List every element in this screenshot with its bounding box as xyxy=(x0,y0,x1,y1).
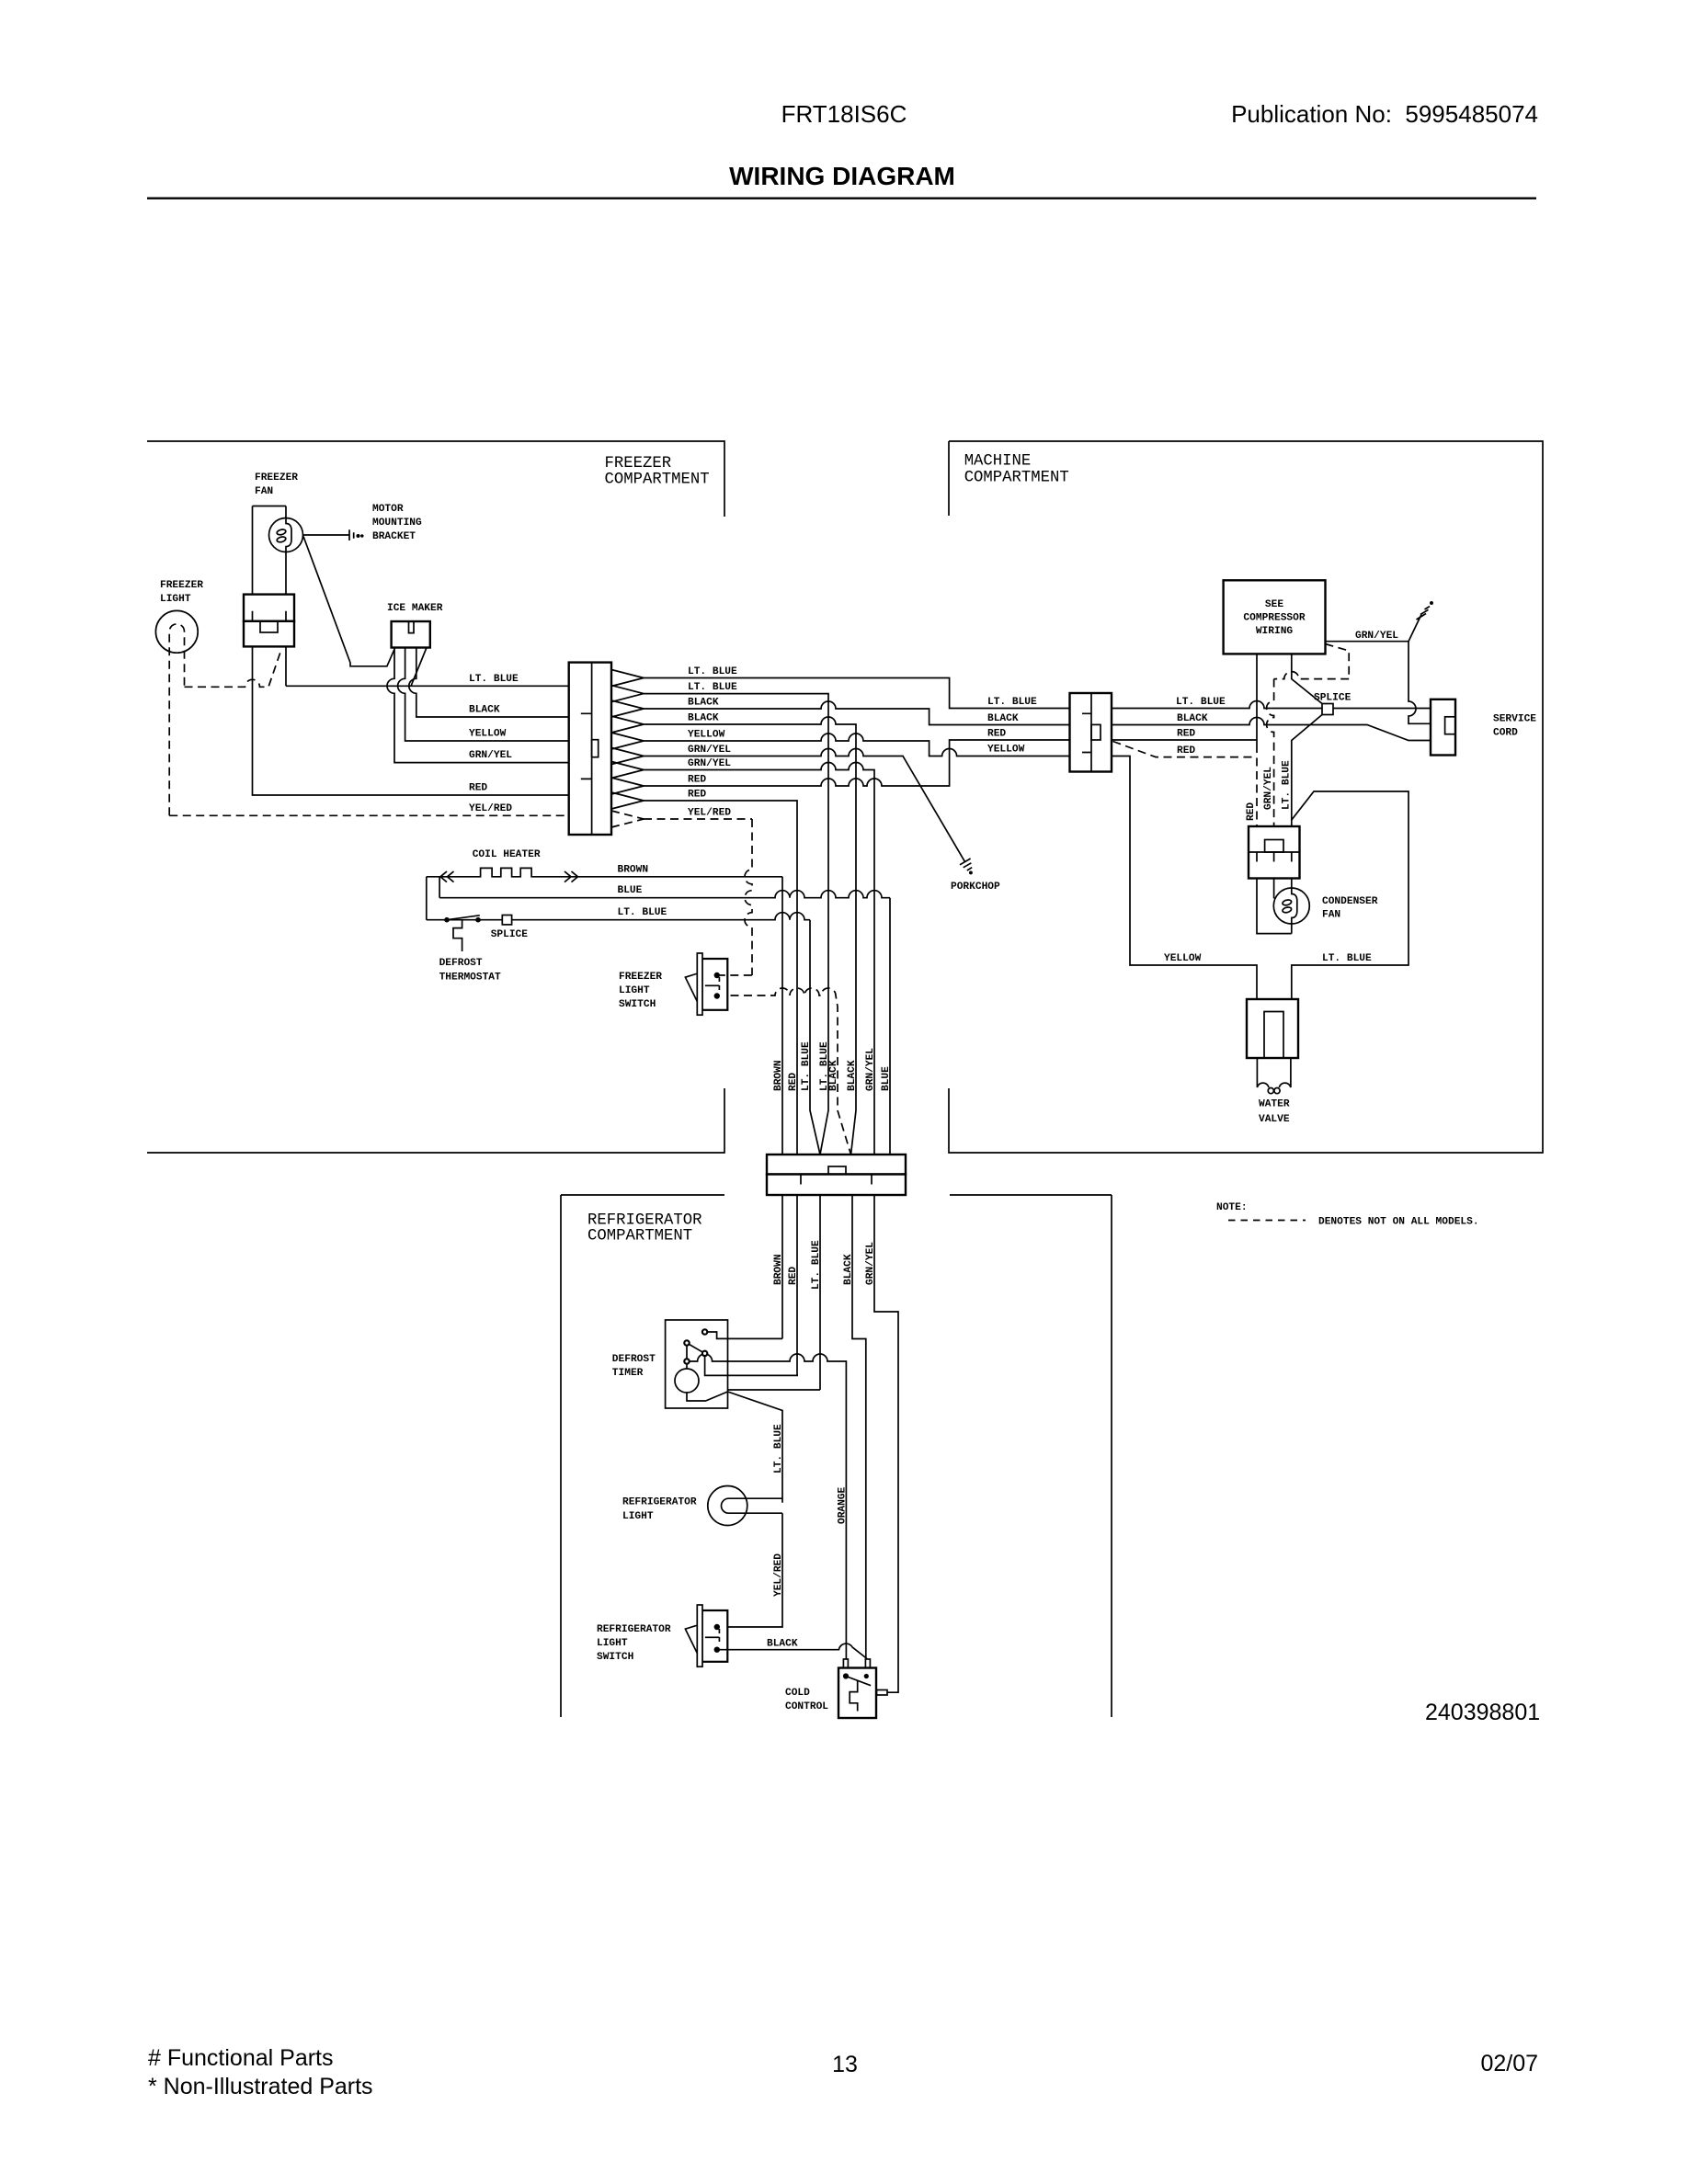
svg-text:NOTE:: NOTE: xyxy=(1216,1202,1248,1213)
svg-text:LT. BLUE: LT. BLUE xyxy=(987,697,1037,708)
svg-text:LIGHT: LIGHT xyxy=(619,985,650,996)
svg-text:TIMER: TIMER xyxy=(612,1368,644,1379)
svg-text:ICE MAKER: ICE MAKER xyxy=(387,603,443,614)
svg-text:DEFROST: DEFROST xyxy=(439,958,483,969)
svg-text:CONDENSER: CONDENSER xyxy=(1322,896,1378,907)
svg-text:RED: RED xyxy=(469,783,487,794)
svg-text:BLACK: BLACK xyxy=(767,1639,798,1650)
svg-text:LT. BLUE: LT. BLUE xyxy=(688,666,737,677)
svg-text:RED: RED xyxy=(788,1073,799,1091)
svg-text:LIGHT: LIGHT xyxy=(622,1511,654,1522)
svg-text:GRN/YEL: GRN/YEL xyxy=(688,745,731,756)
svg-text:FREEZER: FREEZER xyxy=(255,472,298,483)
svg-text:REFRIGERATOR: REFRIGERATOR xyxy=(597,1624,671,1635)
svg-text:SWITCH: SWITCH xyxy=(597,1652,633,1663)
svg-text:BROWN: BROWN xyxy=(618,864,649,875)
svg-text:GRN/YEL: GRN/YEL xyxy=(469,750,512,761)
svg-text:13: 13 xyxy=(832,2052,858,2077)
svg-text:LT. BLUE: LT. BLUE xyxy=(618,907,667,918)
svg-text:BLACK: BLACK xyxy=(847,1060,858,1091)
svg-text:YELLOW: YELLOW xyxy=(987,745,1025,756)
svg-text:MACHINE: MACHINE xyxy=(964,453,1032,471)
svg-text:COMPARTMENT: COMPARTMENT xyxy=(964,469,1069,486)
svg-text:WIRING DIAGRAM: WIRING DIAGRAM xyxy=(729,162,955,190)
svg-text:COIL HEATER: COIL HEATER xyxy=(473,849,541,860)
svg-text:WATER: WATER xyxy=(1259,1099,1290,1110)
svg-text:LIGHT: LIGHT xyxy=(597,1638,628,1649)
svg-text:WIRING: WIRING xyxy=(1256,626,1294,637)
svg-text:LT. BLUE: LT. BLUE xyxy=(688,682,737,693)
svg-text:GRN/YEL: GRN/YEL xyxy=(1263,767,1274,810)
svg-text:RED: RED xyxy=(688,790,706,801)
svg-text:* Non-Illustrated Parts: * Non-Illustrated Parts xyxy=(148,2074,373,2099)
svg-text:FREEZER: FREEZER xyxy=(619,972,662,983)
svg-text:GRN/YEL: GRN/YEL xyxy=(865,1048,876,1091)
svg-text:# Functional Parts: # Functional Parts xyxy=(148,2045,334,2071)
svg-text:FREEZER: FREEZER xyxy=(605,455,672,472)
svg-text:BLACK: BLACK xyxy=(987,713,1019,724)
svg-text:PORKCHOP: PORKCHOP xyxy=(951,882,1000,893)
svg-text:02/07: 02/07 xyxy=(1480,2051,1538,2076)
svg-text:YEL/RED: YEL/RED xyxy=(469,803,512,814)
svg-text:YELLOW: YELLOW xyxy=(688,730,725,741)
svg-text:DENOTES NOT ON ALL MODELS.: DENOTES NOT ON ALL MODELS. xyxy=(1318,1217,1479,1228)
svg-text:COMPARTMENT: COMPARTMENT xyxy=(605,472,710,489)
svg-text:SEE: SEE xyxy=(1265,599,1283,610)
svg-text:FRT18IS6C: FRT18IS6C xyxy=(781,100,907,128)
svg-text:BROWN: BROWN xyxy=(773,1060,784,1091)
svg-text:VALVE: VALVE xyxy=(1259,1114,1290,1125)
svg-text:BLUE: BLUE xyxy=(618,885,643,896)
svg-text:LT. BLUE: LT. BLUE xyxy=(1176,697,1226,708)
svg-text:DEFROST: DEFROST xyxy=(612,1354,656,1365)
svg-text:YELLOW: YELLOW xyxy=(1164,953,1202,964)
svg-text:CONTROL: CONTROL xyxy=(785,1701,828,1712)
svg-text:FAN: FAN xyxy=(255,486,273,497)
svg-text:RED: RED xyxy=(1177,729,1195,740)
svg-text:BLUE: BLUE xyxy=(881,1066,892,1091)
svg-text:MOUNTING: MOUNTING xyxy=(372,518,422,529)
svg-text:LT. BLUE: LT. BLUE xyxy=(801,1041,812,1091)
svg-text:RED: RED xyxy=(1177,745,1195,756)
svg-text:FREEZER: FREEZER xyxy=(160,580,203,591)
svg-text:BLACK: BLACK xyxy=(688,713,719,724)
svg-text:SPLICE: SPLICE xyxy=(1314,693,1352,704)
svg-text:MOTOR: MOTOR xyxy=(372,504,404,515)
svg-text:SWITCH: SWITCH xyxy=(619,999,656,1010)
svg-text:GRN/YEL: GRN/YEL xyxy=(688,758,731,769)
svg-text:BLACK: BLACK xyxy=(469,705,500,716)
svg-text:LT. BLUE: LT. BLUE xyxy=(1322,953,1372,964)
svg-text:BLACK: BLACK xyxy=(688,698,719,709)
svg-text:BLACK: BLACK xyxy=(828,1060,839,1091)
svg-text:BLACK: BLACK xyxy=(1177,713,1208,724)
svg-text:SERVICE: SERVICE xyxy=(1493,714,1536,725)
svg-text:YELLOW: YELLOW xyxy=(469,729,507,740)
svg-text:YEL/RED: YEL/RED xyxy=(688,808,731,819)
svg-text:THERMOSTAT: THERMOSTAT xyxy=(439,973,501,984)
svg-text:RED: RED xyxy=(688,775,706,786)
svg-text:CORD: CORD xyxy=(1493,728,1518,739)
svg-text:COMPARTMENT: COMPARTMENT xyxy=(587,1228,692,1246)
svg-text:RED: RED xyxy=(1246,802,1257,821)
svg-text:FAN: FAN xyxy=(1322,910,1340,921)
svg-text:Publication No: 5995485074: Publication No: 5995485074 xyxy=(1231,100,1538,128)
svg-text:COMPRESSOR: COMPRESSOR xyxy=(1243,613,1305,624)
svg-text:240398801: 240398801 xyxy=(1425,1700,1540,1725)
svg-text:SPLICE: SPLICE xyxy=(491,929,529,940)
svg-text:GRN/YEL: GRN/YEL xyxy=(1355,631,1398,642)
svg-text:BRACKET: BRACKET xyxy=(372,531,416,542)
svg-text:LT. BLUE: LT. BLUE xyxy=(469,674,519,685)
svg-text:REFRIGERATOR: REFRIGERATOR xyxy=(622,1497,697,1508)
svg-text:LT. BLUE: LT. BLUE xyxy=(1282,760,1293,810)
svg-text:RED: RED xyxy=(987,729,1006,740)
svg-text:COLD: COLD xyxy=(785,1688,810,1699)
svg-text:LIGHT: LIGHT xyxy=(160,594,191,605)
